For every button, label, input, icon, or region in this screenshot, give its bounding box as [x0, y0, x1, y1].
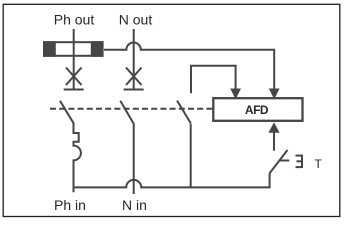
breaker pole Ph: blade [60, 101, 74, 124]
wire bottom bus (with hop over N) [74, 173, 270, 187]
disconnect link X (phase) [64, 68, 84, 90]
arrow into AFD bottom [268, 122, 279, 133]
wire Ph out vertical [73, 29, 75, 90]
svg-text:Ph in: Ph in [54, 197, 86, 213]
svg-text:Ph out: Ph out [54, 12, 95, 28]
svg-text:N out: N out [119, 12, 153, 28]
wire control loop to AFD top left [191, 66, 236, 94]
arrow into AFD top right [269, 89, 280, 100]
arrow into AFD top left [230, 89, 241, 100]
fuse F1 [43, 41, 104, 57]
svg-text:T: T [315, 157, 323, 171]
disconnect link X (neutral) [124, 68, 144, 90]
dashed mechanical linkage [50, 108, 213, 110]
wire aux pole down to bottom wire [190, 124, 192, 188]
svg-text:AFD: AFD [245, 103, 269, 117]
wire T switch to AFD bottom [273, 132, 275, 151]
AFD box U1 [213, 98, 302, 121]
wire N down to N in [133, 124, 135, 194]
node N out label [119, 12, 153, 28]
test button symbol [296, 155, 303, 168]
breaker pole aux: blade [177, 101, 191, 124]
node Ph out label [54, 12, 95, 28]
svg-text:N in: N in [122, 197, 147, 213]
wire from fuse to AFD top (with hop over N) [104, 43, 274, 89]
breaker pole Ph: trip element [74, 124, 81, 193]
wire N out vertical [133, 29, 135, 90]
test switch T blade [269, 150, 287, 174]
breaker pole N: blade [120, 101, 134, 125]
test switch actuator tick [279, 160, 289, 162]
